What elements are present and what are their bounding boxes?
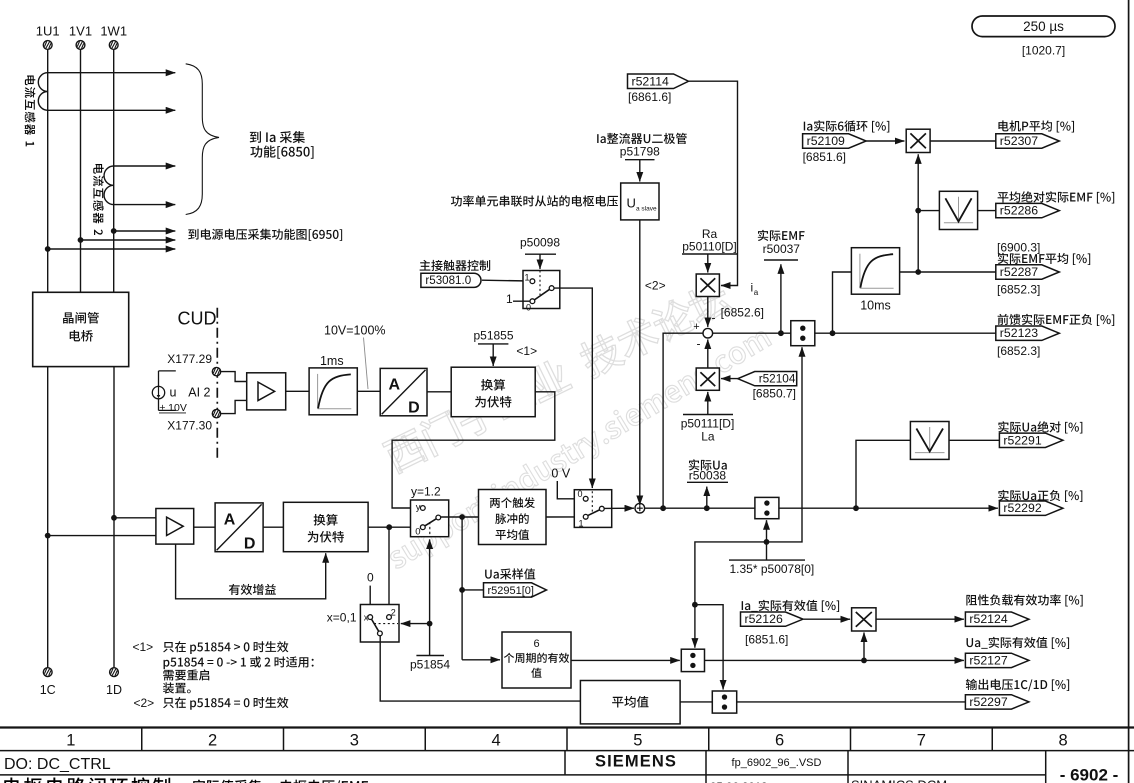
wire to r52297 — [737, 701, 966, 703]
svg-text:r50038: r50038 — [689, 469, 727, 483]
label to line voltage sensing 6950 — [188, 229, 342, 241]
svg-text:r52292: r52292 — [1003, 501, 1041, 515]
wire r52104 to La X — [721, 378, 738, 380]
thyristor bridge — [33, 292, 129, 366]
label actual EMF r50037 — [758, 230, 805, 241]
svg-text:1W1: 1W1 — [100, 24, 127, 39]
wire — [462, 589, 483, 591]
svg-text:[6850.7]: [6850.7] — [753, 387, 796, 401]
node — [861, 658, 867, 664]
svg-text:± 10V: ± 10V — [160, 402, 187, 414]
wire phase 1U1 — [47, 49, 49, 292]
block rms of 6 cycles — [502, 632, 571, 688]
svg-text:[6861.6]: [6861.6] — [628, 90, 671, 104]
wire divisor to Ua divider — [766, 520, 768, 560]
wire divisor to rms divider — [694, 605, 696, 648]
node to absolute value — [853, 505, 859, 511]
svg-text:[6851.6]: [6851.6] — [803, 150, 846, 164]
svg-text:[6852.3]: [6852.3] — [997, 283, 1040, 297]
wire — [978, 210, 996, 212]
svg-text:A: A — [224, 511, 236, 528]
multiplier Ra — [696, 274, 719, 297]
svg-text:D: D — [244, 535, 256, 552]
wire — [918, 210, 939, 212]
wire phase 1V1 — [80, 49, 82, 292]
wire — [930, 140, 996, 142]
svg-text:r52287: r52287 — [1000, 265, 1038, 279]
svg-text:1: 1 — [578, 519, 583, 529]
parameter p50111 La — [683, 414, 733, 416]
svg-text:r53081.0: r53081.0 — [425, 274, 471, 287]
wire upper chain to switch y input — [392, 392, 555, 508]
svg-text:fp_6902_96_.VSD: fp_6902_96_.VSD — [732, 757, 822, 769]
svg-text:r52104: r52104 — [759, 372, 796, 386]
wire — [427, 391, 451, 393]
svg-text:r52124: r52124 — [969, 612, 1007, 626]
connector r52104 — [738, 372, 797, 386]
sampling time 250us — [972, 16, 1115, 37]
footer title — [4, 777, 170, 783]
svg-text:1D: 1D — [106, 683, 122, 697]
wire — [369, 586, 371, 615]
decor — [381, 277, 734, 475]
page border right — [1128, 0, 1130, 783]
switch y=1.2 — [411, 500, 449, 537]
feedback effective gain — [176, 544, 326, 599]
svg-text:1C: 1C — [40, 683, 56, 697]
svg-text:[1020.7]: [1020.7] — [1022, 44, 1065, 58]
smoothing 10ms — [851, 248, 899, 295]
footer table — [0, 726, 1134, 728]
amplifier upper — [247, 373, 286, 410]
wire — [194, 526, 215, 528]
svg-text:1V1: 1V1 — [69, 24, 92, 39]
svg-text:p50111[D]: p50111[D] — [681, 417, 735, 431]
wire from lower output to contact 2 — [388, 527, 390, 614]
wire — [546, 516, 583, 518]
multiplier resistive load — [852, 608, 876, 631]
wire Ua slave to summer — [639, 220, 641, 505]
wire — [48, 535, 156, 537]
connector r52287 — [998, 253, 1090, 265]
svg-text:SIEMENS: SIEMENS — [595, 753, 677, 771]
svg-text:10V=100%: 10V=100% — [324, 324, 386, 338]
node r50037 tap — [778, 330, 784, 336]
svg-text:1.35* p50078[0]: 1.35* p50078[0] — [730, 562, 815, 576]
wire switch output to summer — [604, 507, 634, 509]
wire Ra X to summer — [707, 297, 709, 327]
connector r52114 — [628, 74, 689, 89]
terminal 1C — [43, 668, 52, 677]
svg-text:6: 6 — [533, 638, 539, 650]
svg-text:1: 1 — [66, 731, 75, 749]
wire — [707, 254, 709, 273]
wire switch output — [441, 516, 479, 518]
wire rms out — [705, 659, 964, 661]
wire EMF summer out — [713, 332, 791, 334]
wire r52114 to Ra multiplier — [689, 81, 738, 285]
svg-text:r52109: r52109 — [807, 134, 845, 148]
wire contactor switch to 0V switch — [554, 288, 592, 488]
svg-text:0 V: 0 V — [551, 467, 570, 481]
svg-text:<1>: <1> — [516, 344, 537, 358]
connector r52307 — [998, 120, 1074, 132]
svg-text:CUD: CUD — [178, 309, 217, 329]
svg-text:0: 0 — [577, 489, 582, 499]
node actual Ua tap — [704, 505, 710, 511]
current transformer CT1 — [38, 73, 47, 111]
svg-text:8: 8 — [1059, 731, 1068, 749]
divider average — [712, 691, 736, 713]
svg-text:- 6902 -: - 6902 - — [1060, 766, 1119, 783]
wire 1D — [113, 367, 115, 668]
svg-text:0: 0 — [415, 527, 420, 538]
node 10ms tap — [830, 330, 836, 336]
svg-text:[6852.3]: [6852.3] — [997, 344, 1040, 358]
wire r52126 to multiplier — [804, 618, 851, 620]
brace to Ia acquisition — [186, 64, 219, 215]
wire arrow to r50038 — [706, 487, 708, 509]
node Ua sample tap — [459, 587, 465, 593]
wire — [114, 517, 156, 519]
svg-text:r50037: r50037 — [763, 242, 801, 256]
svg-text:y=1.2: y=1.2 — [411, 485, 441, 499]
wire X177.30 to amplifier — [221, 400, 247, 413]
multiplier P — [906, 129, 930, 152]
voltage source u — [152, 386, 164, 398]
wire to sampling and rms — [461, 517, 463, 660]
wire divisor to avg divider — [695, 605, 723, 690]
wire X177.29 to amplifier — [221, 372, 247, 382]
wire — [513, 300, 530, 302]
node abs tap — [915, 208, 921, 214]
svg-text:4: 4 — [492, 731, 501, 749]
svg-text:X177.30: X177.30 — [167, 419, 212, 433]
connector r52291 — [998, 421, 1082, 433]
wire 6950 arrow c — [48, 248, 176, 250]
wire control p51854 — [429, 539, 431, 655]
svg-text:La: La — [701, 429, 715, 443]
svg-text:<2>: <2> — [134, 696, 155, 710]
wire 1C — [47, 367, 49, 668]
svg-text:<1>: <1> — [133, 640, 154, 654]
terminal 1D — [110, 668, 119, 677]
wire up to multiplier P — [917, 154, 919, 272]
label armature voltage of slave — [451, 195, 618, 206]
wire switch output to average block — [380, 636, 580, 701]
svg-text:1U1: 1U1 — [36, 24, 60, 39]
wire 0V into switch — [557, 481, 583, 499]
block Ua slave — [621, 183, 659, 220]
parameter 1.35*p50078[0] — [729, 559, 805, 561]
svg-text:-: - — [712, 311, 716, 325]
svg-text:u: u — [170, 386, 177, 400]
svg-text:i: i — [751, 281, 754, 295]
connector r52126 — [742, 600, 839, 612]
A/D converter upper — [380, 368, 427, 415]
svg-text:D: D — [408, 399, 420, 416]
amplifier lower — [156, 509, 194, 545]
svg-text:1ms: 1ms — [320, 354, 344, 368]
svg-text:r52297: r52297 — [969, 695, 1007, 709]
svg-text:a slave: a slave — [636, 206, 657, 213]
wire Ua to EMF summer — [663, 333, 703, 508]
svg-text:r52307: r52307 — [1000, 134, 1038, 148]
svg-text:p51855: p51855 — [473, 329, 513, 343]
svg-text:1: 1 — [506, 292, 513, 306]
svg-text:p51854: p51854 — [410, 657, 450, 671]
node — [459, 514, 465, 520]
label to Ia function 6850 — [250, 131, 305, 143]
svg-text:[6852.6]: [6852.6] — [721, 306, 764, 320]
svg-text:AI 2: AI 2 — [188, 385, 210, 399]
divider EMF — [791, 321, 815, 346]
wire 6950 arrow a — [114, 230, 176, 232]
label main contactor control — [420, 260, 491, 271]
label actual Ua r50038 — [689, 459, 727, 470]
wire r52109 to multiplier — [866, 140, 904, 142]
wire CT1 arrow b — [48, 109, 176, 111]
svg-text:a: a — [754, 288, 759, 297]
svg-text:[6900.3]: [6900.3] — [997, 241, 1040, 255]
node — [915, 269, 921, 275]
absolute value EMF — [939, 191, 977, 229]
convert to volts upper — [451, 367, 535, 417]
svg-text:r52123: r52123 — [1000, 326, 1038, 340]
convert to volts lower — [283, 502, 368, 551]
connector r52109 — [804, 120, 890, 132]
wire — [482, 279, 530, 282]
wire — [263, 526, 283, 528]
svg-text:-: - — [697, 337, 701, 351]
node 1C tap — [45, 533, 51, 539]
wire main Ua right — [779, 507, 998, 509]
svg-text:r52291: r52291 — [1003, 433, 1041, 447]
svg-text:p50098: p50098 — [520, 236, 560, 250]
connector r52286 — [998, 191, 1115, 203]
wire — [571, 659, 680, 661]
wire — [357, 390, 380, 392]
connector r52127 — [967, 637, 1070, 649]
wire to absolute Ua — [856, 440, 910, 508]
svg-text:0: 0 — [526, 303, 531, 313]
node tap 1W1 to 6950 — [111, 228, 117, 234]
svg-text:x=0,1: x=0,1 — [327, 611, 357, 625]
summing junction — [635, 503, 645, 513]
wire EMF out — [815, 332, 996, 334]
smoothing 1ms — [309, 368, 357, 415]
svg-text:r52951[0]: r52951[0] — [488, 585, 534, 597]
wire 6950 arrow b — [81, 239, 176, 241]
svg-text:[6851.6]: [6851.6] — [745, 633, 788, 647]
summer EMF — [703, 328, 713, 338]
svg-text:r52114: r52114 — [632, 74, 670, 88]
svg-text:X177.29: X177.29 — [167, 352, 212, 366]
connector r52297 — [966, 679, 1069, 691]
node — [764, 539, 770, 545]
A/D converter lower — [215, 503, 263, 552]
svg-text:+: + — [693, 321, 699, 333]
connector r52292 — [998, 490, 1082, 502]
wire — [368, 526, 420, 528]
node lower output — [386, 524, 392, 530]
svg-text:U: U — [627, 196, 636, 211]
node divisor branch — [692, 602, 698, 608]
divider Ua — [755, 497, 779, 518]
svg-text:2: 2 — [208, 731, 217, 749]
wire La X to summer — [707, 340, 709, 369]
absolute value Ua — [910, 422, 949, 460]
wire CT1 arrow a — [48, 72, 176, 74]
svg-text:250 µs: 250 µs — [1023, 19, 1064, 34]
wire CT2 arrow a — [114, 165, 176, 167]
connector r52124 — [966, 594, 1082, 606]
wire 10ms out — [900, 271, 996, 273]
svg-text:10ms: 10ms — [860, 299, 891, 313]
node — [427, 621, 433, 627]
current transformer CT2 — [104, 166, 114, 205]
wire up to multiplier R-load — [863, 633, 865, 661]
wire — [286, 390, 309, 392]
multiplier La — [696, 368, 719, 390]
node 1D tap — [111, 515, 117, 521]
wire to 10ms — [833, 272, 852, 333]
node tap 1U1 to 6950 — [45, 246, 51, 252]
divider rms — [681, 649, 704, 671]
switch x=0,1 — [360, 605, 399, 643]
wire — [639, 160, 641, 182]
svg-text:7: 7 — [917, 731, 926, 749]
block average of two trigger pulses — [479, 490, 547, 545]
wire main Ua — [645, 507, 755, 509]
svg-text:r52127: r52127 — [969, 653, 1007, 667]
switch p50098 — [523, 271, 560, 309]
svg-text:p50110[D]: p50110[D] — [682, 240, 737, 254]
wire multiplier out — [876, 618, 964, 620]
svg-text:DO: DC_CTRL: DO: DC_CTRL — [4, 756, 111, 773]
node tap 1V1 to 6950 — [78, 237, 84, 243]
wire — [680, 701, 712, 703]
node to EMF computation — [660, 505, 666, 511]
svg-text:1: 1 — [524, 273, 529, 283]
svg-text:r52286: r52286 — [1000, 204, 1038, 218]
svg-text:6: 6 — [775, 731, 784, 749]
parameter p51854 — [416, 655, 444, 657]
svg-text:SINAMICS DCM: SINAMICS DCM — [851, 778, 947, 783]
wire arrow to r50037 — [780, 264, 782, 333]
connector r52951[0] — [485, 568, 535, 579]
svg-text:r52126: r52126 — [745, 612, 783, 626]
wire CT2 arrow b — [114, 204, 176, 206]
svg-text:<2>: <2> — [645, 279, 666, 293]
wire control into switch — [401, 623, 430, 625]
connector r53081.0 — [421, 273, 481, 287]
wire to 6-cycle rms block — [462, 659, 500, 661]
svg-text:5: 5 — [633, 731, 642, 749]
svg-text:A: A — [388, 376, 400, 393]
wire divisor rail — [695, 347, 802, 605]
svg-text:p51798: p51798 — [620, 144, 660, 158]
switch Ua/0V — [574, 490, 611, 528]
connector r52123 — [998, 314, 1115, 326]
svg-text:0: 0 — [367, 571, 374, 585]
svg-text:3: 3 — [350, 731, 359, 749]
block average — [580, 681, 680, 724]
label p51798 — [597, 133, 687, 144]
wire — [949, 439, 999, 441]
wire phase 1W1 — [113, 49, 115, 292]
